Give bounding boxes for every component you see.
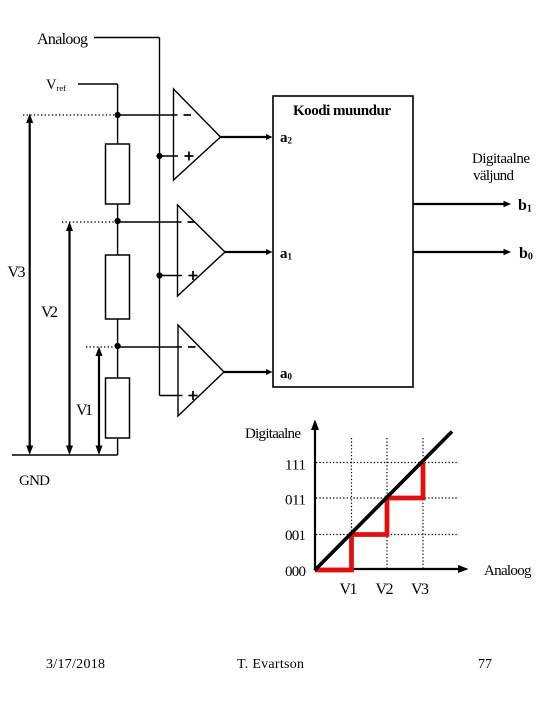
- svg-text:011: 011: [285, 493, 306, 509]
- pin label a2: [280, 130, 293, 146]
- label V1: [76, 402, 93, 419]
- resistor R3: [106, 378, 130, 438]
- footer date: [46, 657, 105, 672]
- dotted gridline at V1: [351, 438, 353, 568]
- wire Analoog bus to comparator U1 plus input: [160, 155, 179, 157]
- svg-text:V1: V1: [76, 402, 93, 419]
- output label b1: [518, 197, 532, 215]
- wire Analoog vertical bus: [159, 38, 161, 396]
- svg-text:Digitaalne: Digitaalne: [472, 151, 530, 167]
- dotted reference line at V1 level: [86, 346, 114, 348]
- wire Analoog horizontal: [94, 37, 160, 39]
- svg-text:Koodi muundur: Koodi muundur: [293, 103, 391, 119]
- dimension arrow V2 (double headed): [66, 222, 73, 456]
- wire node N3 to resistor R1: [117, 115, 119, 144]
- svg-text:001: 001: [285, 528, 306, 544]
- wire node N1 to resistor R3: [117, 346, 119, 378]
- svg-text:Analoog: Analoog: [484, 563, 532, 579]
- svg-text:Digitaalne: Digitaalne: [245, 426, 301, 442]
- svg-text:b1: b1: [518, 197, 532, 215]
- ground rail wire: [12, 454, 118, 456]
- svg-text:Analoog: Analoog: [37, 31, 88, 48]
- ground label GND: [19, 473, 50, 489]
- resistor R1: [106, 144, 130, 204]
- svg-text:a0: a0: [280, 366, 293, 382]
- output arrow U2 to a1: [225, 249, 273, 255]
- node on Analoog bus to U1 plus (junction dot): [156, 153, 162, 159]
- comparator U1: [174, 89, 221, 180]
- wire node N1 to comparator U3 minus input: [118, 346, 182, 348]
- dotted gridline level 001: [316, 534, 459, 536]
- label V3: [8, 264, 26, 281]
- node on Analoog bus to U2 plus (junction dot): [156, 272, 162, 278]
- dotted gridline level 011: [316, 497, 459, 499]
- dimension arrow V3 (double headed): [26, 114, 33, 456]
- svg-text:000: 000: [285, 564, 306, 580]
- red quantizer staircase curve: [315, 463, 423, 571]
- svg-text:Vref: Vref: [46, 77, 66, 93]
- graph X axis: [315, 565, 469, 573]
- graph Y axis: [311, 420, 319, 570]
- svg-text:b0: b0: [519, 245, 533, 263]
- output arrow b1: [413, 201, 511, 208]
- graph axis label Digitaalne: [245, 426, 301, 442]
- tick label 001: [285, 528, 306, 544]
- node N1 junction dot: [115, 343, 121, 349]
- wire Analoog bus to comparator U2 plus input: [160, 275, 183, 277]
- output label b0: [519, 245, 533, 263]
- comparator U2: [178, 205, 226, 296]
- wire resistor R2 to node N1: [117, 319, 119, 346]
- net label Vref: [46, 77, 66, 93]
- svg-text:GND: GND: [19, 473, 50, 489]
- wire Analoog bus to comparator U3 plus input: [160, 395, 183, 397]
- pin label a1: [280, 246, 293, 262]
- wire node N2 to comparator U2 minus input: [118, 221, 182, 223]
- label V2: [41, 304, 58, 321]
- comparator U3: [178, 325, 224, 416]
- footer author: [237, 657, 304, 672]
- svg-text:a1: a1: [280, 246, 293, 262]
- svg-text:V3: V3: [411, 581, 429, 598]
- graph axis label Analoog: [484, 563, 532, 579]
- tick label V1: [340, 581, 358, 598]
- dotted reference line at V2 level: [62, 221, 114, 223]
- wire node N2 to resistor R2: [117, 221, 119, 255]
- dotted reference line at V3 level: [23, 114, 114, 116]
- footer page number: [478, 657, 492, 672]
- wire Vref vertical down to node N3: [117, 84, 119, 115]
- output arrow b0: [413, 249, 511, 256]
- svg-text:V1: V1: [340, 581, 358, 598]
- dimension arrow V1 (double headed): [96, 347, 103, 456]
- tick label 111: [285, 458, 306, 474]
- svg-text:väljund: väljund: [473, 168, 515, 184]
- resistor R2: [106, 255, 130, 319]
- svg-text:77: 77: [478, 657, 492, 672]
- label Digitaalne valjund (digital output): [472, 151, 530, 184]
- svg-text:111: 111: [285, 458, 306, 474]
- node N2 junction dot: [115, 218, 121, 224]
- net label Analoog (analog input): [37, 31, 88, 48]
- box title Koodi muundur: [293, 103, 391, 119]
- pin label a0: [280, 366, 293, 382]
- wire resistor R1 to node N2: [117, 204, 119, 222]
- tick label V3: [411, 581, 429, 598]
- output arrow U3 to a0: [224, 369, 273, 375]
- wire Vref horizontal: [78, 83, 118, 85]
- dotted gridline at V3: [422, 438, 424, 568]
- svg-text:V2: V2: [376, 581, 394, 598]
- svg-text:T. Evartson: T. Evartson: [237, 657, 304, 672]
- wire resistor R3 to ground rail: [117, 438, 119, 455]
- svg-text:3/17/2018: 3/17/2018: [46, 657, 105, 672]
- output arrow U1 to a2: [221, 134, 273, 140]
- code converter box U4 Koodi muundur: [273, 96, 413, 387]
- svg-text:a2: a2: [280, 130, 293, 146]
- dotted gridline level 111: [316, 462, 459, 464]
- svg-text:V2: V2: [41, 304, 58, 321]
- wire node N3 to comparator U1 minus input: [118, 114, 178, 116]
- black ideal transfer diagonal line: [315, 432, 453, 571]
- tick label 011: [285, 493, 306, 509]
- tick label V2: [376, 581, 394, 598]
- node N3 junction dot: [115, 112, 121, 118]
- tick label 000: [285, 564, 306, 580]
- dotted gridline at V2: [386, 438, 388, 568]
- svg-text:V3: V3: [8, 264, 26, 281]
